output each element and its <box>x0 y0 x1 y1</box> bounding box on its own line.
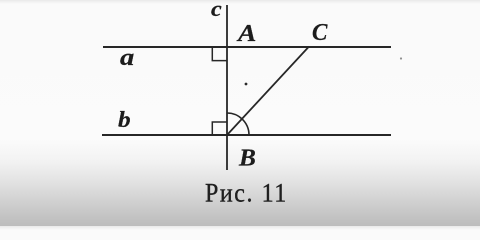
dot near A <box>245 83 248 86</box>
label A <box>238 19 256 48</box>
label c <box>211 0 222 22</box>
right angle mark at A <box>212 47 226 60</box>
label C <box>312 18 327 47</box>
speck on right <box>400 57 402 59</box>
line b <box>102 134 391 136</box>
label a <box>120 43 134 72</box>
label b <box>118 106 131 133</box>
line c <box>226 5 228 170</box>
line a <box>103 46 391 48</box>
angle arc at B <box>227 113 249 135</box>
caption Рис. 11 <box>205 179 288 209</box>
right angle mark at B <box>212 122 226 135</box>
label B <box>239 143 256 172</box>
segment BC <box>227 47 309 136</box>
